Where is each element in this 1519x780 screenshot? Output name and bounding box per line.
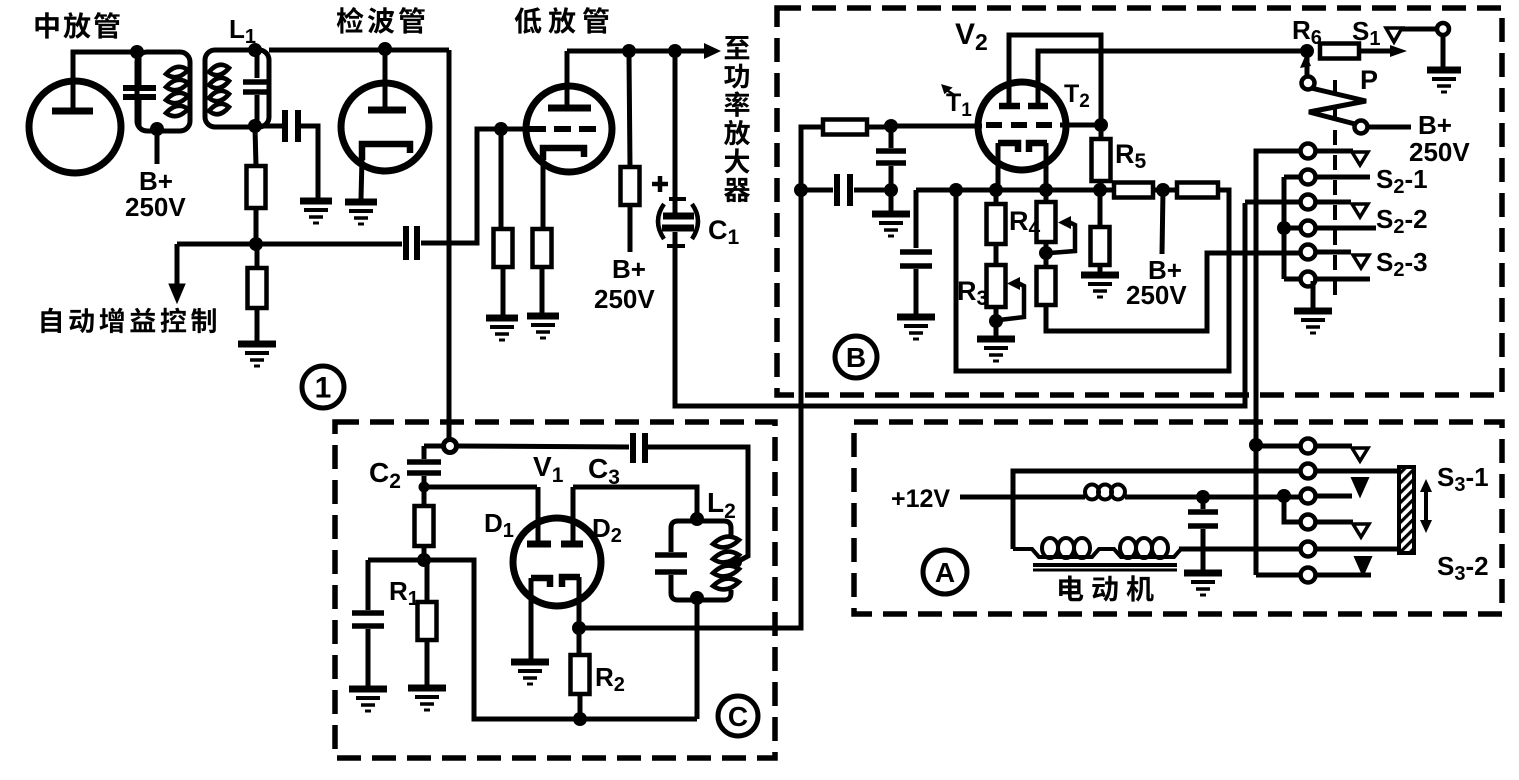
switch contact S3 row5 [1301, 542, 1316, 557]
wire R5 to cathode bus [1099, 181, 1104, 188]
node R1 top [417, 553, 431, 567]
wire ring to C2 corner [424, 444, 444, 449]
wire D1 cathode to ground [529, 578, 534, 659]
wire C1 top lead [673, 55, 678, 213]
wire ring to C3 [456, 446, 629, 447]
node L1 top [248, 43, 262, 57]
node L2 bottom [690, 591, 704, 605]
wire R3 bottom [994, 307, 999, 319]
ground R5 network [1081, 275, 1119, 297]
tube detector plate [368, 107, 406, 114]
resistor B bias 1 [1114, 183, 1153, 198]
switch fixed contact S3 row4 [1353, 524, 1369, 537]
wire S3 row5 to slider [1315, 547, 1399, 552]
wire row2 stub left [1284, 175, 1301, 180]
switch fixed contact S2 row1 [1352, 152, 1368, 165]
switch moving contact S3 row3 [1352, 478, 1368, 496]
wire grid resistor left leg [801, 127, 823, 190]
ground V2 grid network [872, 214, 910, 236]
wire S3 row1 stub left [1256, 444, 1301, 449]
wire L1 bottom to AGC resistor [255, 128, 256, 166]
switch contact P top [1302, 77, 1315, 90]
wire AF plate lead [565, 51, 570, 108]
wire motor bottom to S3 row5 [1179, 547, 1301, 552]
svg-text:B+: B+ [1418, 110, 1452, 140]
wire to ground [501, 267, 506, 316]
tube V2 plate T1 [999, 103, 1020, 110]
wire to ground [1098, 265, 1103, 273]
label 至功率放大器 (to power amplifier) [724, 36, 750, 202]
resistor R1 [418, 602, 437, 640]
wire B+ lead [628, 205, 633, 252]
tube AF plate [548, 105, 591, 112]
node AF grid [494, 122, 508, 136]
node L2 tap [730, 556, 742, 568]
resistor AGC upper [247, 166, 266, 208]
wire R4 bottom [1044, 242, 1049, 253]
tube V1 duodiode envelope [513, 518, 601, 606]
wire detector cathode to ground [361, 158, 362, 199]
wire S3 row6 stub left [1256, 573, 1301, 578]
wire tank bottom to return [695, 598, 700, 719]
wire row4 stub [1315, 226, 1376, 231]
wire to R2 [577, 630, 582, 655]
svg-text:1: 1 [315, 372, 332, 405]
wire AF grid to resistor [499, 133, 504, 229]
tube V1 plate D1 [527, 541, 551, 548]
capacitor C2 [407, 446, 441, 483]
ground motor bypass [1184, 573, 1222, 595]
capacitor IF transformer tuning [123, 55, 156, 128]
capacitor L2 tank [655, 555, 687, 572]
wire cap lead [1201, 500, 1206, 509]
capacitor C-box bypass [352, 613, 384, 626]
wire to R5 [1099, 128, 1104, 139]
resistor R2 [571, 655, 590, 694]
svg-text:250V: 250V [1126, 280, 1187, 310]
wire S2 ganged bar [1282, 177, 1287, 279]
svg-text:250V: 250V [125, 192, 186, 222]
switch fixed contact S3 row1 [1352, 448, 1368, 461]
wire D1 plate lead [536, 487, 541, 544]
wire node to R1 [425, 562, 430, 602]
label 检波管 (detector tube) [337, 7, 425, 34]
potentiometer R4 [1037, 202, 1056, 242]
wire to resistor [1044, 255, 1049, 267]
wire row6 stub left [1284, 277, 1301, 282]
inductor L1 secondary [209, 65, 229, 114]
node R4 chain top [1039, 183, 1053, 197]
wire grid to cap [889, 131, 894, 148]
node feedback loop tap [949, 183, 963, 197]
wire top bus L1 to detector [269, 48, 449, 53]
switch contact P bottom [1355, 121, 1368, 134]
switch contact S2-3 [1301, 245, 1316, 260]
tube AF grid (dashed) [529, 126, 597, 132]
ground AF cathode [527, 316, 559, 338]
switch contact S3 row6 [1301, 568, 1316, 583]
ground detector cathode [345, 202, 377, 224]
transformer L1 can [205, 50, 269, 127]
wire row2 stub [1315, 175, 1370, 180]
wire row1 stub [1315, 149, 1353, 154]
tube detector cathode [362, 144, 410, 160]
tube V1 cathode D2 [562, 577, 580, 587]
wire grid left [891, 124, 982, 129]
dashed link S2 ganged shaft [1333, 80, 1337, 300]
svg-text:C: C [728, 701, 748, 732]
wire row5 stub [1315, 250, 1351, 255]
switch fixed contact S2-3 [1353, 255, 1369, 268]
wire row6 stub [1315, 277, 1370, 282]
wire T2 cathode lead [1044, 143, 1049, 188]
wire C1 to switch S2-2 [675, 203, 1245, 406]
resistor below R4 [1037, 267, 1056, 305]
wire P to B+ [1368, 125, 1411, 130]
wire C3 to L2 tap [648, 447, 748, 562]
resistor AF cathode [533, 229, 552, 267]
ground S1 [1427, 70, 1461, 92]
ground R1 [408, 688, 446, 710]
node B+ resistor tap [622, 44, 636, 58]
wire to P [1305, 55, 1310, 77]
wire grid to node [1060, 123, 1097, 128]
wire resistor to grid node [867, 125, 888, 130]
wire AGC bus left [177, 242, 402, 247]
wire bypass cap lead [366, 560, 371, 610]
wire between resistors [1153, 188, 1177, 193]
svg-text:B+: B+ [612, 254, 646, 284]
wire T1 plate loop to R5 [1009, 35, 1101, 122]
wire terminal to ground [1441, 35, 1446, 68]
wire coupling cap to AF grid [421, 129, 524, 243]
arrow S3 slider travel [1420, 479, 1432, 533]
ground V2 cathode bypass [897, 317, 935, 339]
wire row3 feed [1245, 200, 1301, 205]
wire node to bypass cap [368, 558, 424, 563]
node B+ node B [1156, 183, 1170, 197]
node V2 grid [884, 119, 898, 133]
wire T2 plate to R6 [1038, 51, 1302, 106]
wire D2 plate to tank top [573, 487, 697, 519]
switch contact S2 row1 [1301, 144, 1316, 159]
wire S3 row3 stub [1315, 494, 1352, 499]
capacitor V2 grid to ground [876, 151, 906, 163]
wire to ground [994, 321, 999, 337]
wire AGC to lower resistor [255, 246, 260, 268]
tube V1 plate D2 [561, 541, 583, 548]
wire L1 bottom to capacitor [255, 124, 282, 129]
wire T1 cathode lead [996, 143, 1001, 188]
wire to ground [540, 267, 545, 314]
node B input [794, 183, 808, 197]
label 自动增益控制 (AGC) [41, 308, 215, 333]
wire bottom return [424, 560, 697, 719]
capacitor motor bypass [1188, 512, 1218, 526]
node R3 chain top [989, 183, 1003, 197]
switch contact S3 row2 [1301, 464, 1316, 479]
wire B+ lead B [1162, 190, 1163, 254]
dashed box C (unit C) [335, 422, 775, 758]
ground D1 cathode [511, 662, 549, 684]
node R2 bottom [573, 712, 587, 726]
wire cap to node [889, 166, 894, 188]
node AGC bus [249, 237, 263, 251]
wire detector output to V2 grid network [579, 193, 801, 628]
wire to ground [914, 269, 919, 315]
tube detector (检波管) envelope [341, 83, 429, 171]
resistor AF B+ dropping [621, 167, 640, 205]
ground S2 [1294, 311, 1332, 333]
ground C bypass [349, 689, 387, 711]
wire AF plate to output bus [567, 49, 706, 54]
wire to resistor [422, 490, 427, 506]
resistor AGC lower [248, 268, 267, 308]
node IF transformer bottom [150, 122, 164, 136]
wire input to cap [801, 188, 833, 193]
potentiometer P zigzag [1309, 88, 1366, 124]
resistor C-divider upper [415, 506, 434, 546]
node C2 bottom [419, 482, 430, 493]
inductor choke (+12V line) [1085, 485, 1125, 500]
switch contact S2 row6 [1301, 272, 1316, 287]
capacitor V2 cathode bypass [900, 252, 932, 266]
switch contact S1 terminal [1437, 23, 1449, 35]
wire S3 row1 stub [1315, 444, 1352, 449]
label circled A (unit A) [923, 550, 967, 594]
node grid cap ground node [884, 183, 898, 197]
wire B+ to resistor [629, 55, 630, 167]
label circled C (unit C) [718, 696, 758, 736]
switch moving contact S3 row6 [1355, 557, 1371, 575]
wire to resistor [994, 193, 999, 204]
potentiometer R3 [987, 265, 1006, 307]
svg-text:250V: 250V [1409, 137, 1470, 167]
wire to lower resistor [1098, 193, 1103, 227]
wire to ground [889, 193, 894, 212]
wire row3 stub [1315, 200, 1351, 205]
wire to R4 [1044, 193, 1049, 202]
node detector output [572, 621, 586, 635]
tube V1 cathode D1 [531, 578, 550, 587]
tank circuit L2 outline [671, 521, 731, 600]
inductor L2 [713, 537, 739, 590]
tube IF amp (中放管) envelope [29, 81, 121, 173]
capacitor C1 electrolytic [652, 176, 698, 246]
switch fixed contact S1 [1386, 28, 1402, 42]
capacitor V2 grid coupling [837, 174, 850, 206]
tube AF cathode [543, 148, 584, 160]
label circled B (unit B) [835, 336, 877, 378]
resistor B bias 2 [1177, 183, 1218, 198]
wire R2 to return [578, 694, 583, 717]
node detector plate [378, 42, 392, 56]
wire B+ feedback loop [956, 190, 1229, 371]
capacitor C3 [633, 433, 645, 463]
node R6 input [1300, 44, 1314, 58]
wire +12V to S3 [1125, 495, 1304, 500]
wire R4 network to S2-3 [1046, 253, 1301, 331]
S1 wiper arm with arrow [1359, 45, 1407, 57]
wire capacitor to ground [301, 126, 318, 199]
switch contact S3 row1 [1301, 439, 1316, 454]
wire D2 cathode lead [577, 577, 582, 625]
node R3 wiper tie [989, 314, 1003, 328]
dashed box A (unit A) [854, 422, 1502, 614]
node C1 tap [668, 44, 682, 58]
node S3 +12V tie [1277, 489, 1291, 503]
wire cathode bus [916, 188, 1114, 193]
wire R1 to ground [425, 640, 430, 685]
node C2 top (ring junction) [444, 440, 457, 453]
svg-text:A: A [935, 557, 955, 588]
switch contact S2-1 [1301, 170, 1316, 185]
wire S3 row6 stub [1315, 573, 1371, 578]
node R4 wiper tie [1039, 246, 1053, 260]
wire to ground [255, 308, 260, 342]
wire detector bus down to C2 [447, 50, 452, 441]
S3 sliding contact bar [1399, 467, 1414, 553]
ground AF grid leak [486, 318, 518, 340]
svg-text:250V: 250V [594, 284, 655, 314]
node T2 grid / R5 top [1094, 118, 1108, 132]
tube V2 grid (dashed) [986, 122, 1060, 128]
wire detector plate lead [383, 49, 388, 110]
wire row6 to ground [1311, 281, 1316, 309]
svg-text:+12V: +12V [891, 485, 950, 513]
capacitor detector grid [285, 110, 298, 142]
node S2 common [1277, 221, 1291, 235]
tube AF amp (低放管) envelope [526, 86, 612, 172]
capacitor L1 tuning [243, 53, 271, 124]
wire to ground [1201, 529, 1206, 571]
svg-text:B: B [846, 342, 866, 373]
wire S3 row4 stub [1315, 520, 1353, 525]
tube IF amp plate [52, 108, 93, 115]
resistor below R5 [1091, 227, 1110, 265]
node motor cap tap [1196, 490, 1210, 504]
wire AGC resistor to bus [254, 208, 259, 242]
R4 wiper arrow [1050, 216, 1075, 253]
ground detector grid capacitor [300, 201, 332, 223]
wire to ground [366, 629, 371, 686]
resistor above R3 [987, 204, 1006, 244]
wire to R3 [994, 244, 999, 265]
arrow AGC output [169, 244, 185, 303]
wire row4 stub left [1290, 226, 1301, 231]
switch fixed contact S2-2 [1352, 204, 1368, 217]
capacitor coupling C (AGC line) [406, 226, 417, 260]
wire tie to row4 [1284, 496, 1301, 522]
tube V2 twin triode envelope [978, 82, 1066, 170]
wire S1 to terminal [1402, 27, 1437, 32]
switch contact S3 row4 [1301, 515, 1316, 530]
wire C2 to D1 plate [424, 485, 537, 490]
ground AGC divider [238, 344, 276, 366]
motor armature winding [1013, 538, 1301, 570]
label 中放管 (IF amplifier tube) [35, 12, 119, 39]
label 低放管 (AF amplifier tube) [515, 7, 609, 34]
label circled 1 (unit I) [302, 366, 344, 408]
resistor V2 grid series [823, 120, 867, 135]
switch contact S3 row3 [1301, 489, 1316, 504]
node IF transformer top [130, 45, 144, 59]
wire motor loop top [1013, 471, 1301, 549]
wire IF plate to transformer [73, 52, 134, 111]
wire +12V feed [960, 495, 1085, 500]
tube V2 cathode T1 [998, 143, 1018, 152]
wire D2 plate lead [571, 487, 576, 544]
svg-text:P: P [1360, 65, 1378, 95]
wire S1 row feed / S3 link [1256, 151, 1301, 575]
wire resistor to node [422, 546, 427, 558]
ground R3 [977, 339, 1015, 361]
wire S3 row2 to slider [1315, 469, 1399, 474]
dashed box B (unit B) [777, 8, 1502, 395]
node L1 bottom [248, 119, 262, 133]
tube V2 cathode T2 [1029, 143, 1047, 152]
switch contact S2-2 [1301, 195, 1316, 210]
resistor AF grid leak [494, 229, 513, 267]
tube V2 plate T2 [1028, 103, 1048, 110]
node R5 bottom [1093, 183, 1107, 197]
inductor IF transformer primary [166, 67, 188, 116]
wire cap to node [854, 188, 888, 193]
node L2 top [690, 512, 704, 526]
node S3 feed [1249, 438, 1263, 452]
wire row5 left [1301, 250, 1307, 255]
P wiper arrowhead [1300, 54, 1311, 68]
mark above T1 [943, 86, 956, 96]
wire AF cathode to resistor [541, 148, 546, 229]
wire B+ feed IF [155, 131, 160, 164]
label 电动机 (motor) [1059, 575, 1154, 601]
switch contact S2 row4 [1301, 221, 1316, 236]
resistor R5 [1092, 139, 1111, 181]
arrow to power amplifier [704, 43, 721, 59]
R3 wiper arrow [999, 277, 1024, 320]
resistor R6 [1320, 44, 1359, 59]
IF transformer can [137, 52, 190, 131]
wire bypass cap lead [914, 190, 919, 248]
